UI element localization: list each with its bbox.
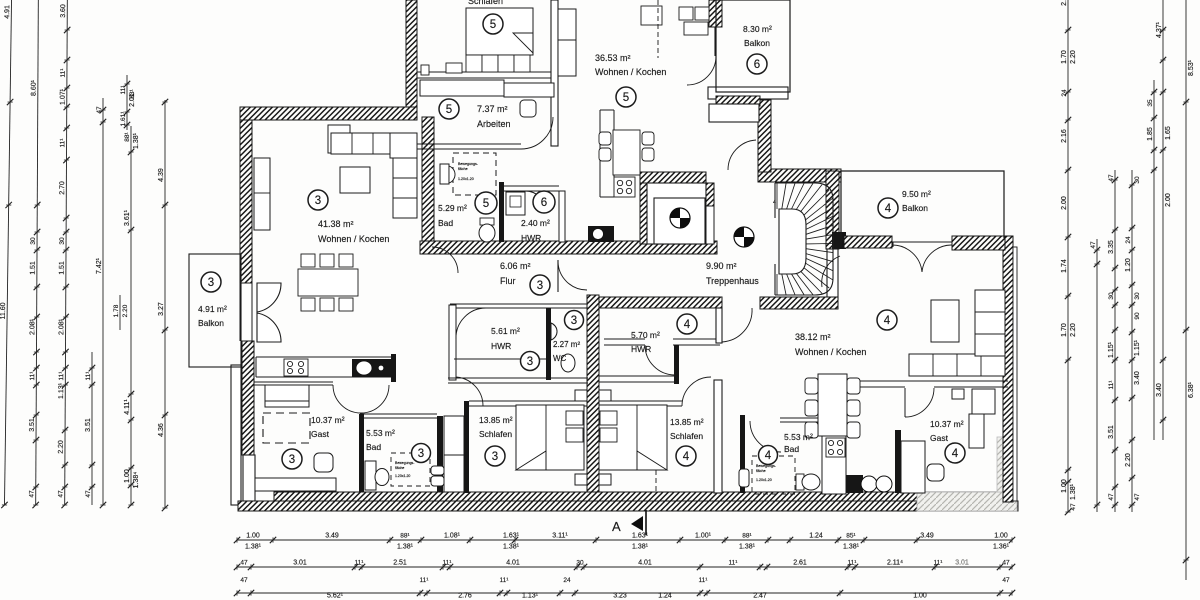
balcony4 door b (922, 245, 952, 272)
dim col x1163 (1156, 0, 1172, 440)
svg-text:47: 47 (240, 560, 248, 567)
apt5 bed cushions (466, 55, 530, 72)
svg-text:3: 3 (537, 280, 543, 292)
dim col x8 (0, 0, 15, 508)
svg-text:5: 5 (623, 92, 629, 104)
dining chairs 4 (805, 378, 860, 438)
svg-text:47: 47 (1002, 577, 1010, 584)
section A flag (631, 510, 646, 535)
circ bad4 (759, 446, 778, 465)
svg-text:11¹: 11¹ (355, 560, 365, 567)
dim col x1154 (1147, 80, 1157, 440)
svg-text:11¹: 11¹ (729, 560, 739, 567)
Bad3 top wall a (360, 413, 437, 415)
kitchen3 wall right (391, 354, 396, 382)
svg-text:2.27 m²: 2.27 m² (553, 340, 580, 349)
balcony4 door a (892, 245, 922, 272)
svg-text:11¹: 11¹ (29, 371, 36, 381)
svg-text:3.40: 3.40 (1156, 383, 1163, 397)
svg-text:1.00: 1.00 (913, 593, 927, 600)
Schlafen3 wardrobe strip (444, 416, 464, 492)
Schlafen3 pillow b (566, 428, 583, 442)
svg-text:3.49: 3.49 (920, 533, 934, 540)
svg-text:88¹: 88¹ (742, 533, 752, 540)
Schlafen3 top wall b (469, 405, 587, 407)
svg-text:5.70 m²: 5.70 m² (631, 330, 660, 340)
svg-text:11¹: 11¹ (85, 371, 92, 381)
svg-text:88¹: 88¹ (124, 131, 131, 141)
bedside table 3b (575, 474, 587, 485)
Gast4 bed (901, 441, 925, 493)
apt5 side rect b (421, 65, 429, 75)
Schlafen4 bed (599, 405, 667, 470)
svg-text:3.61¹: 3.61¹ (124, 209, 131, 226)
circ flur3 (530, 275, 550, 295)
svg-text:Wohnen / Kochen: Wohnen / Kochen (795, 347, 866, 357)
circ hwr3 (521, 352, 540, 371)
door HWR4 (645, 345, 675, 375)
kitchen5 sink (588, 226, 614, 242)
Schlafen4 bed line (636, 405, 638, 470)
svg-text:1.38⁴: 1.38⁴ (133, 472, 140, 489)
apt3 top exterior wall (240, 107, 417, 120)
circ hwr6 (533, 191, 555, 213)
svg-text:11.60: 11.60 (0, 302, 7, 319)
HWR4 bottom wall a (673, 338, 720, 340)
wall left of apt5 Schlafen (406, 0, 417, 112)
HWR3 top wall b (450, 307, 588, 309)
svg-text:11¹: 11¹ (934, 560, 944, 567)
svg-text:fläche: fläche (756, 469, 766, 473)
svg-text:24: 24 (563, 577, 571, 584)
HWR3 bottom wall a (448, 377, 588, 379)
Bad4 wc (796, 474, 820, 490)
stair outer boundary (775, 183, 833, 295)
svg-text:2.51: 2.51 (393, 560, 407, 567)
svg-text:1.13¹: 1.13¹ (522, 593, 539, 600)
svg-text:90: 90 (1134, 312, 1141, 320)
svg-text:4.01: 4.01 (506, 560, 520, 567)
door Gast3 left leaf (333, 385, 361, 413)
sofa3 corner right (390, 133, 417, 158)
apt4 schlafen top a (599, 400, 682, 402)
apt5 chair (520, 100, 536, 117)
svg-text:1.00: 1.00 (994, 533, 1008, 540)
Gast4 wardrobe a (972, 389, 995, 414)
svg-text:1.36¹: 1.36¹ (993, 544, 1010, 551)
door Arbeiten (521, 117, 553, 149)
HWR3 bottom wall b (448, 382, 588, 384)
Bad4 top wall a (780, 417, 823, 419)
svg-text:Gast: Gast (930, 433, 949, 443)
door living3 to Flur (432, 247, 458, 273)
corner block below balcony4 (832, 232, 846, 249)
svg-text:1.00¹: 1.00¹ (695, 533, 712, 540)
balcony3 door top leaf (257, 283, 281, 312)
svg-text:30: 30 (576, 560, 584, 567)
svg-text:4: 4 (884, 315, 891, 327)
stair bottom hatched wall (760, 297, 838, 309)
Bad5 toilet (479, 218, 495, 242)
svg-text:1.38¹: 1.38¹ (739, 544, 756, 551)
outer strip below balcony3 (231, 365, 241, 505)
dim col x124b (113, 295, 129, 330)
svg-text:2.76: 2.76 (458, 593, 472, 600)
svg-text:1.38¹: 1.38¹ (843, 544, 860, 551)
apt3 left exterior wall upper (240, 120, 252, 283)
wall inner edge apt5 (416, 0, 418, 112)
Bad3 basin pair (431, 466, 444, 486)
svg-text:30: 30 (1134, 176, 1141, 184)
svg-text:2.08¹: 2.08¹ (58, 318, 65, 335)
svg-text:5: 5 (446, 104, 452, 116)
Bad4 left wall (740, 415, 745, 493)
coffee table 3 (340, 167, 370, 193)
svg-text:Bad: Bad (438, 218, 453, 228)
svg-text:5.29 m²: 5.29 m² (438, 203, 467, 213)
balcony 9.50 outline (841, 171, 1004, 247)
svg-text:HWR: HWR (491, 341, 511, 351)
svg-text:4.11¹: 4.11¹ (124, 399, 131, 415)
apt3 left door sill b (251, 283, 253, 341)
apt5 shelf under wall (420, 80, 504, 96)
dim col x66 (57, 0, 70, 508)
svg-text:3: 3 (571, 315, 577, 327)
circ apt5 arbeiten (439, 99, 459, 119)
svg-text:Treppenhaus: Treppenhaus (706, 276, 759, 286)
svg-text:11¹: 11¹ (1108, 380, 1115, 390)
Schlafen3 left wall (464, 401, 469, 493)
circ gast3 (282, 449, 302, 469)
svg-text:7.37 m²: 7.37 m² (477, 104, 508, 114)
door HWR3 (456, 308, 486, 339)
balcony6 bottom white band (708, 87, 788, 99)
stair right wall hatch (826, 171, 839, 249)
Gast3 cabinet (265, 385, 309, 407)
HWR4 bottom wall stub b (604, 344, 645, 346)
svg-text:47: 47 (1134, 493, 1141, 501)
svg-text:47: 47 (1002, 560, 1010, 567)
svg-text:8.30 m²: 8.30 m² (743, 24, 772, 34)
Bad3 moveable dashed (391, 453, 430, 486)
svg-text:1.38¹: 1.38¹ (245, 544, 262, 551)
apt5 side rect a (446, 63, 462, 73)
svg-text:85¹: 85¹ (846, 533, 856, 540)
svg-text:13.85 m²: 13.85 m² (479, 415, 513, 425)
sofa4 seamv2 (975, 333, 1005, 335)
svg-text:4: 4 (952, 448, 959, 460)
svg-text:4.91 m²: 4.91 m² (198, 304, 227, 314)
svg-text:4.01: 4.01 (638, 560, 652, 567)
WC3 toilet (561, 354, 575, 372)
sofa3 seamv2 (393, 197, 417, 199)
dim col x165 (158, 99, 168, 511)
kitchen4 wall right (845, 412, 847, 456)
svg-text:3.27: 3.27 (158, 302, 165, 316)
apt4 corridor wall a (599, 375, 674, 377)
sofa3 seam1 (351, 133, 353, 154)
svg-text:30: 30 (1134, 292, 1141, 300)
svg-text:1.78: 1.78 (113, 304, 120, 317)
svg-text:A: A (612, 519, 621, 534)
svg-text:38.12 m²: 38.12 m² (795, 332, 831, 342)
svg-text:Wohnen / Kochen: Wohnen / Kochen (595, 67, 666, 77)
kitchen3 stove (284, 359, 308, 376)
sofa3 corner seat (328, 125, 350, 153)
svg-text:5.53 m²: 5.53 m² (784, 432, 813, 442)
kitchen4 counter (822, 412, 846, 494)
svg-text:3: 3 (315, 195, 321, 207)
Bad4 basin (739, 469, 749, 487)
balcony3 door bottom leaf (257, 313, 281, 342)
svg-text:3.23: 3.23 (613, 593, 627, 600)
treppenhaus symbol (734, 227, 754, 247)
svg-text:3.01: 3.01 (955, 560, 969, 567)
svg-text:1.15¹: 1.15¹ (1108, 341, 1115, 358)
Arbeiten bottom wall b (417, 148, 521, 150)
HWR3 bench line (454, 358, 546, 360)
Gast4 wardrobe b (969, 414, 984, 448)
Schlafen3 pillow a (566, 411, 583, 425)
dim col x127 (120, 75, 136, 130)
svg-text:1.70: 1.70 (1061, 323, 1068, 337)
Schlafen4 pillow a (600, 411, 617, 425)
bedside table 3a (575, 390, 587, 401)
Gast3 top wall a (254, 381, 333, 383)
balcony4 doors sill (892, 241, 952, 243)
svg-text:3.01: 3.01 (293, 560, 307, 567)
svg-text:4: 4 (683, 451, 690, 463)
svg-text:4.37¹: 4.37¹ (1156, 21, 1163, 38)
dim col x1115 (1108, 170, 1118, 512)
kitchen4 stove (826, 438, 845, 457)
spiral stair steps (777, 183, 833, 295)
balcony4 bottom hatch left (844, 236, 892, 248)
Schlafen4 blanket (637, 451, 667, 470)
svg-text:Arbeiten: Arbeiten (477, 119, 511, 129)
svg-text:47: 47 (1070, 503, 1077, 511)
svg-text:3: 3 (527, 356, 533, 368)
svg-text:1.63¹: 1.63¹ (503, 533, 520, 540)
svg-text:11¹: 11¹ (699, 577, 709, 584)
HWR4 bottom wall stub a (604, 338, 645, 340)
svg-text:2.40 m²: 2.40 m² (521, 218, 550, 228)
bedside table 4a (599, 390, 611, 401)
svg-text:Flur: Flur (500, 276, 516, 286)
svg-text:1.38¹: 1.38¹ (632, 544, 649, 551)
svg-text:1.13¹: 1.13¹ (58, 382, 65, 399)
Arbeiten bottom wall a (417, 143, 521, 145)
Bad4 moveable dashed (752, 456, 795, 494)
svg-text:13.85 m²: 13.85 m² (670, 417, 704, 427)
svg-text:4: 4 (773, 200, 776, 206)
dim row C (234, 577, 1015, 600)
HWR4 bottom wall b (673, 344, 720, 346)
Schlafen3 blanket (516, 451, 546, 470)
circ apt4 wohnen (877, 310, 897, 330)
svg-text:30: 30 (59, 237, 66, 245)
Bad5-HWR6 wall (499, 182, 504, 242)
svg-text:fläche: fläche (395, 466, 404, 470)
dim col x1186 (1183, 0, 1195, 580)
circ schlafen4 (676, 446, 696, 466)
kitchen4 sink block (846, 475, 863, 493)
svg-text:2.00: 2.00 (1061, 196, 1068, 210)
stair left edge top (774, 183, 776, 218)
door Schlafen3 (454, 377, 483, 406)
kitchen5 counter right (613, 110, 615, 177)
HWR6 right wall (559, 191, 565, 242)
sofa3 seam2 (372, 133, 374, 154)
svg-text:Schlafen: Schlafen (479, 429, 512, 439)
sofa4 seam3 (980, 354, 982, 376)
Bad3 top wall b (360, 417, 437, 419)
Gast3 top wall b (254, 384, 333, 386)
coffee table 4 (931, 300, 959, 342)
Schlafen3 wardrobe divider (444, 454, 464, 456)
door HWR6 (525, 191, 547, 213)
Gast4 top wall b2 (934, 386, 1008, 388)
circ bad3 (412, 444, 431, 463)
HWR6 washing machine (506, 192, 525, 215)
circ balkon6 (747, 54, 767, 74)
svg-text:11¹: 11¹ (59, 138, 66, 148)
Gast3 sideboard (255, 478, 336, 491)
Gast3 dashed box (263, 413, 310, 443)
svg-text:47: 47 (85, 490, 92, 498)
balcony6 left wall line (714, 27, 716, 56)
kitchen5 counter bottom (600, 196, 614, 198)
apt4 schlafen top b (599, 405, 682, 407)
dim col x37 (28, 0, 41, 508)
svg-text:fläche: fläche (458, 167, 468, 171)
svg-text:5.61 m²: 5.61 m² (491, 326, 520, 336)
svg-text:88¹: 88¹ (400, 533, 410, 540)
circ wc3 (565, 311, 584, 330)
stair right wall white lower (827, 249, 838, 299)
svg-text:11¹: 11¹ (420, 577, 430, 584)
svg-text:4.91: 4.91 (4, 5, 11, 19)
balcony6 left wall hatch (709, 0, 722, 27)
stair left edge bottom (774, 264, 776, 295)
svg-text:1.38¹: 1.38¹ (503, 544, 520, 551)
svg-text:1.20x1.20: 1.20x1.20 (395, 474, 410, 478)
svg-text:4.36: 4.36 (158, 423, 165, 437)
wall between living3 and Bad5.29 (422, 117, 434, 246)
svg-text:1.20x1.20: 1.20x1.20 (756, 478, 772, 482)
door Gast4 leaf (904, 388, 906, 417)
dim col x92 (85, 352, 95, 505)
svg-text:24: 24 (1061, 89, 1068, 97)
Gast4 top wall b1 (836, 386, 905, 388)
svg-text:2.20: 2.20 (1070, 50, 1077, 64)
door Flur-Treppenhaus (558, 261, 587, 290)
svg-text:2.08¹: 2.08¹ (29, 318, 36, 335)
door balcony6 (687, 56, 716, 85)
svg-text:1.07¹: 1.07¹ (60, 88, 67, 105)
Bad5 wall basin (440, 164, 455, 184)
kitchen3 counter left (255, 357, 257, 377)
apt5 wardrobe band (558, 9, 576, 76)
svg-text:Bewegungs-: Bewegungs- (458, 162, 479, 166)
svg-text:3: 3 (492, 451, 498, 463)
svg-text:2.20: 2.20 (1125, 453, 1132, 467)
dim row B faint labels (955, 560, 969, 567)
svg-text:1.20: 1.20 (1125, 258, 1132, 272)
svg-text:4.39: 4.39 (158, 168, 165, 182)
svg-text:7.42¹: 7.42¹ (96, 257, 103, 274)
svg-text:30: 30 (30, 237, 37, 245)
sofa4 vertical (975, 290, 1005, 356)
chimney right white band (706, 206, 714, 244)
svg-text:6: 6 (754, 59, 760, 71)
svg-text:3.35: 3.35 (1108, 240, 1115, 254)
dim col x1068 (1061, 0, 1077, 515)
svg-text:8.60¹: 8.60¹ (31, 79, 38, 96)
apt5 dining set (599, 130, 654, 175)
door Flur leaf (557, 260, 559, 292)
chimney top hatch (640, 172, 706, 183)
apt5 top furniture (641, 6, 709, 35)
wall bottom Schlafen5 a (417, 71, 551, 73)
apt3 left wall white lower (243, 455, 255, 501)
svg-text:2.20: 2.20 (58, 440, 65, 454)
apt4 corridor wall b (599, 381, 674, 383)
apt5 desk (504, 83, 554, 97)
chimney inner box (654, 198, 705, 244)
svg-text:Gast: Gast (311, 429, 330, 439)
apt4 entry wall band (716, 308, 722, 343)
svg-text:47: 47 (29, 490, 36, 498)
HWR3 door leaf (455, 308, 457, 339)
chimney room (647, 183, 706, 244)
svg-text:1.63¹: 1.63¹ (632, 533, 649, 540)
svg-text:1.51: 1.51 (59, 261, 66, 275)
Schlafen3 bed line (545, 405, 547, 470)
svg-text:35: 35 (1147, 99, 1154, 107)
svg-text:1.08¹: 1.08¹ (444, 533, 461, 540)
circ apt3 wohnen (308, 190, 328, 210)
svg-text:36.53 m²: 36.53 m² (595, 53, 631, 63)
svg-text:3.51: 3.51 (85, 418, 92, 432)
svg-text:3.51: 3.51 (1108, 425, 1115, 439)
svg-text:Wohnen / Kochen: Wohnen / Kochen (318, 234, 389, 244)
HWR6 top wall b (504, 190, 559, 192)
svg-text:6.38¹: 6.38¹ (1188, 381, 1195, 398)
svg-text:1.70: 1.70 (1061, 50, 1068, 64)
Gast4 chair (927, 464, 944, 481)
svg-text:3.49: 3.49 (325, 533, 339, 540)
svg-text:1.20x1.20: 1.20x1.20 (458, 177, 474, 181)
party wall apt3-apt4 (587, 295, 599, 493)
door stair to living4 (822, 256, 840, 287)
kitchen5 counter left (599, 110, 601, 197)
svg-text:Bewegungs-: Bewegungs- (395, 461, 415, 465)
bottom exterior wall (238, 501, 1018, 511)
svg-text:3.40: 3.40 (1134, 371, 1141, 385)
radiator niche left wall (254, 158, 270, 230)
sofa3 horizontal (331, 133, 393, 154)
svg-text:1.00: 1.00 (1061, 479, 1068, 493)
bedside table 4b (599, 474, 611, 485)
svg-text:2.20: 2.20 (122, 304, 129, 317)
circ gast4 (945, 443, 965, 463)
circ bad5 (475, 192, 497, 214)
chimney left hatch (640, 172, 647, 244)
dining set apt3 (298, 254, 358, 311)
kitchen3 sink (352, 359, 392, 377)
svg-text:1.38¹: 1.38¹ (397, 544, 414, 551)
